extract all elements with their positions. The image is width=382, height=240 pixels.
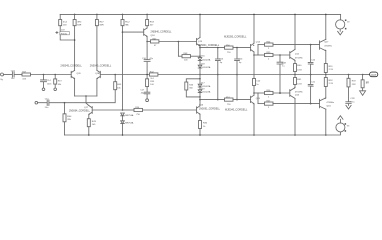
svg-text:C1b: C1b bbox=[239, 59, 244, 61]
capacitor C21 (on output Q11 base column) bbox=[308, 75, 313, 104]
wire Q19 emitter down bbox=[199, 46, 201, 58]
wire top supply rail bbox=[60, 13, 340, 15]
resistor R60 (load to ground) bbox=[362, 75, 364, 80]
wire input bbox=[4, 74, 13, 76]
resistor R41 (Q13 emitter) bbox=[294, 75, 296, 78]
diode D20 (MR754A upper) bbox=[121, 113, 125, 116]
resistor R19 (input shunt to ground) bbox=[54, 75, 56, 79]
svg-text:1u: 1u bbox=[282, 65, 285, 67]
voltage source V- bbox=[336, 123, 345, 132]
diode D16 bbox=[198, 58, 202, 61]
diode D19 bbox=[198, 90, 202, 93]
svg-text:R39: R39 bbox=[150, 81, 155, 83]
resistor R40 (Q12 emitter) bbox=[294, 60, 296, 63]
svg-text:3C4: 3C4 bbox=[63, 21, 68, 23]
svg-text:HU03u: HU03u bbox=[61, 33, 67, 35]
capacitor C14 (input shunt to ground) bbox=[41, 75, 47, 88]
svg-text:1k5: 1k5 bbox=[92, 124, 96, 126]
svg-text:1.5u: 1.5u bbox=[350, 101, 355, 103]
svg-text:2.19: 2.19 bbox=[329, 69, 334, 71]
svg-text:D16: D16 bbox=[201, 56, 206, 58]
svg-text:C10: C10 bbox=[256, 81, 261, 83]
wire col4 bias column down to diode stack bbox=[122, 26, 124, 110]
capacitor C12 (bias spreader bypass) bbox=[277, 55, 283, 93]
svg-text:OUT: OUT bbox=[371, 73, 377, 77]
svg-text:R52: R52 bbox=[329, 80, 334, 82]
svg-text:Q19: Q19 bbox=[198, 41, 203, 43]
svg-text:750: 750 bbox=[136, 114, 140, 116]
svg-text:2R2: 2R2 bbox=[352, 84, 357, 86]
svg-text:2.19: 2.19 bbox=[329, 83, 334, 85]
svg-text:2: 2 bbox=[268, 107, 270, 109]
svg-text:Q13: Q13 bbox=[295, 95, 300, 97]
svg-text:R19: R19 bbox=[58, 81, 63, 83]
resistor R59 (Zobel resistor) bbox=[348, 75, 350, 79]
svg-text:MJE350_CORDELL: MJE350_CORDELL bbox=[224, 35, 247, 38]
wire Q15 emitter down to rail bbox=[253, 104, 255, 135]
wire Q17 base to bias column bbox=[92, 109, 122, 111]
wire Q13 collector to bottom rail bbox=[294, 98, 296, 135]
svg-text:1u: 1u bbox=[311, 64, 314, 66]
transistor Q19 bbox=[196, 38, 198, 44]
transistor Q13 (driver bottom) bbox=[289, 90, 291, 97]
svg-text:KD02ZA: KD02ZA bbox=[202, 58, 210, 61]
resistor R52 (Q11 emitter) bbox=[325, 75, 327, 78]
svg-text:750: 750 bbox=[227, 52, 231, 54]
node junction col4 / Q18 base bbox=[122, 31, 124, 33]
capacitor C17 (40p to ground) bbox=[144, 92, 150, 99]
resistor R17 (input series) bbox=[22, 73, 31, 76]
resistor R36 (Q16 emitter) bbox=[199, 114, 201, 120]
svg-text:560: 560 bbox=[189, 88, 193, 90]
svg-text:2: 2 bbox=[268, 48, 270, 50]
wire Q19 collector to rail bbox=[199, 14, 201, 37]
svg-text:Q14: Q14 bbox=[256, 42, 261, 44]
svg-text:MJE340_CORDELL: MJE340_CORDELL bbox=[225, 109, 248, 112]
svg-text:2N5091_CORDELL: 2N5091_CORDELL bbox=[199, 107, 221, 110]
resistor R34 (on bias wire to Q16) bbox=[123, 109, 135, 111]
svg-text:Q1U: Q1U bbox=[326, 106, 331, 108]
svg-text:R53: R53 bbox=[150, 21, 155, 23]
svg-text:Q15: Q15 bbox=[256, 98, 261, 100]
ground terminal circle for C17 bbox=[146, 99, 149, 102]
wire from junction down to R48 bbox=[177, 42, 179, 57]
svg-text:43k: 43k bbox=[58, 84, 62, 86]
ground terminal circle for C15 bbox=[35, 101, 38, 104]
svg-text:C14: C14 bbox=[47, 80, 52, 82]
wire diff pair emitter bar bbox=[75, 95, 97, 97]
svg-text:Q17: Q17 bbox=[324, 42, 329, 44]
polarity marks V+ bbox=[345, 20, 347, 22]
svg-text:C13: C13 bbox=[219, 59, 224, 61]
wire Q15 collector up bbox=[253, 93, 255, 95]
wire Q18 emitter down to C16 column bbox=[146, 36, 148, 41]
svg-text:R43: R43 bbox=[92, 121, 97, 123]
wire feedback input line bbox=[100, 74, 149, 76]
ground arrow (V-) bbox=[338, 116, 343, 120]
svg-text:104: 104 bbox=[184, 60, 188, 62]
svg-text:V2: V2 bbox=[347, 21, 350, 23]
svg-text:47: 47 bbox=[154, 45, 157, 47]
svg-text:50u: 50u bbox=[45, 107, 49, 109]
svg-text:R51: R51 bbox=[329, 66, 334, 68]
svg-text:D19: D19 bbox=[201, 88, 206, 90]
capacitor C18 (input coupling) bbox=[12, 72, 14, 77]
wire Q11 collector to bottom rail bbox=[325, 109, 327, 135]
svg-text:Q18: Q18 bbox=[151, 35, 156, 37]
node junction R47/Q19 base wire bbox=[178, 41, 180, 43]
wire compensation right column lower bbox=[236, 75, 238, 100]
svg-text:R45: R45 bbox=[117, 84, 122, 86]
svg-text:39k: 39k bbox=[67, 119, 71, 121]
wire Q12 collector to rail bbox=[294, 14, 296, 49]
resistor R27 (rail resistor col4) bbox=[122, 14, 124, 16]
capacitor C20 (on output Q10 base column) bbox=[308, 45, 313, 75]
svg-text:4p: 4p bbox=[239, 62, 242, 64]
input port terminal bbox=[1, 73, 4, 76]
resistor R43 (Q17 emitter degeneration) bbox=[88, 114, 90, 118]
svg-text:10k: 10k bbox=[117, 87, 121, 89]
resistor R57 (VAS node to output bottom base) bbox=[258, 103, 265, 105]
capacitor C16 (47p on column below Q18 emitter) bbox=[144, 42, 150, 75]
svg-text:R41: R41 bbox=[297, 79, 302, 81]
capacitor C26 (Zobel cap) bbox=[346, 87, 351, 106]
transistor Q15 (VAS bottom, MJE340) bbox=[250, 96, 252, 102]
resistor R48 (between junction column and Q19 emitter node) bbox=[178, 55, 182, 57]
svg-text:R46: R46 bbox=[189, 84, 194, 86]
svg-text:0.33: 0.33 bbox=[297, 70, 302, 72]
svg-text:100n: 100n bbox=[47, 83, 52, 85]
svg-text:10K: 10K bbox=[22, 79, 26, 81]
svg-text:2N5045_CORDELL: 2N5045_CORDELL bbox=[90, 64, 112, 67]
ground arrow (V+) bbox=[338, 31, 343, 35]
svg-text:V3: V3 bbox=[347, 126, 350, 128]
svg-text:84R: 84R bbox=[77, 24, 81, 26]
svg-text:4k7: 4k7 bbox=[150, 24, 154, 26]
resistor R50 (on VAS top base wire) bbox=[200, 47, 225, 49]
svg-text:2N5045_CORDELL: 2N5045_CORDELL bbox=[60, 64, 82, 67]
svg-text:MR754A: MR754A bbox=[125, 114, 134, 117]
svg-text:Q17: Q17 bbox=[84, 107, 89, 109]
svg-text:4T03Hx: 4T03Hx bbox=[326, 102, 335, 104]
svg-text:MR754A: MR754A bbox=[125, 122, 134, 125]
wire output line bbox=[158, 74, 363, 76]
capacitor C10 (box style, on VAS column) bbox=[253, 52, 255, 79]
svg-text:R59: R59 bbox=[352, 81, 357, 83]
svg-text:1k8: 1k8 bbox=[63, 24, 67, 26]
wire bottom supply rail bbox=[65, 132, 341, 135]
capacitor C19 (electrolytic below R23) bbox=[60, 32, 70, 35]
port OUT bbox=[363, 74, 370, 76]
svg-text:4T03Hx: 4T03Hx bbox=[295, 57, 304, 59]
wire compensation left column lower bbox=[217, 75, 219, 100]
svg-text:2N5641_CORDELL: 2N5641_CORDELL bbox=[198, 44, 220, 47]
node junction at C19/col2 bbox=[74, 39, 76, 41]
svg-text:Q1A: Q1A bbox=[95, 72, 100, 75]
svg-text:C1R: C1R bbox=[350, 98, 355, 100]
resistor R39 (series in C17 leg) bbox=[146, 75, 148, 79]
svg-text:Vg: Vg bbox=[0, 79, 3, 81]
transistor Q10 (output top) bbox=[319, 41, 321, 50]
node junction feedback shunt / R44 bbox=[64, 102, 66, 104]
svg-text:1k: 1k bbox=[203, 126, 206, 128]
resistor R25 (rail resistor col3) bbox=[96, 14, 98, 16]
svg-text:4p: 4p bbox=[220, 62, 223, 64]
resistor R54 (VAS node to output top base) bbox=[257, 45, 259, 55]
svg-text:C17: C17 bbox=[140, 89, 145, 91]
transistor Q21 (diff pair right) bbox=[99, 71, 101, 77]
resistor R47 (Q18 emitter to Q19 base) bbox=[147, 41, 150, 43]
svg-text:C18: C18 bbox=[11, 70, 16, 72]
resistor R45 (feedback divider upper) bbox=[114, 75, 116, 82]
ground arrow (Zobel) bbox=[346, 105, 351, 109]
resistor R51 (Q10 emitter) bbox=[325, 51, 327, 64]
diode D18 bbox=[198, 65, 202, 68]
svg-text:3H4: 3H4 bbox=[77, 21, 82, 23]
svg-text:Q12: Q12 bbox=[295, 54, 300, 56]
resistor R23 (top-left rail resistor) bbox=[59, 14, 61, 19]
diode D17 bbox=[199, 75, 201, 85]
capacitor C15 (feedback shunt electrolytic) bbox=[38, 100, 65, 105]
transistor Q17 (tail current source) bbox=[91, 107, 93, 114]
wire diff emitters to Q17 collector bbox=[86, 96, 89, 106]
resistor R42 (on feedback line) bbox=[149, 73, 158, 76]
wire Q10 collector to rail bbox=[325, 14, 327, 39]
svg-text:10u: 10u bbox=[11, 78, 15, 80]
svg-text:750: 750 bbox=[227, 104, 231, 106]
ground triangle (load) bbox=[360, 91, 366, 96]
wire Q14 emitter to rail bbox=[253, 14, 255, 43]
svg-text:D18: D18 bbox=[201, 64, 206, 66]
transistor Q20 (diff pair left) bbox=[70, 71, 72, 77]
capacitor C15b (compensation right column) bbox=[236, 47, 238, 49]
resistor R46 (parallel branch left of diode stack) bbox=[186, 79, 200, 82]
capacitor C13 (compensation left column) bbox=[217, 47, 219, 49]
transistor Q11 (output bottom) bbox=[319, 99, 321, 108]
svg-text:KD02ZA: KD02ZA bbox=[202, 66, 210, 69]
svg-text:0.33: 0.33 bbox=[297, 84, 302, 86]
svg-text:47p: 47p bbox=[149, 58, 153, 60]
svg-text:R36: R36 bbox=[203, 123, 208, 125]
svg-text:R44: R44 bbox=[67, 116, 72, 118]
svg-text:R40: R40 bbox=[297, 65, 302, 67]
svg-text:1u: 1u bbox=[311, 86, 314, 88]
svg-text:R47: R47 bbox=[100, 21, 105, 23]
svg-text:KD02ZA: KD02ZA bbox=[202, 91, 210, 94]
polarity marks V- bbox=[345, 123, 347, 125]
svg-text:D17: D17 bbox=[201, 83, 206, 85]
svg-text:2: 2 bbox=[268, 96, 270, 98]
resistor R56 (VAS node to Q13 base) bbox=[257, 93, 259, 104]
svg-text:RC2: RC2 bbox=[125, 21, 130, 23]
svg-text:4T03Hx: 4T03Hx bbox=[295, 91, 304, 93]
resistor R44 (shunt node to bottom rail) bbox=[64, 103, 66, 114]
wire VAS output column bbox=[253, 54, 255, 56]
transistor Q12 (driver top) bbox=[289, 52, 291, 59]
transistor Q14 (VAS top, MJE350) bbox=[250, 44, 252, 50]
resistor R55 (VAS node to Q12 base) bbox=[254, 54, 265, 56]
svg-text:98k: 98k bbox=[125, 24, 129, 26]
resistor R53 (rail resistor above Q18) bbox=[146, 14, 148, 16]
transistor Q16 (VAS current source) bbox=[196, 107, 198, 113]
voltage source V+ bbox=[340, 14, 342, 19]
wire input to diff pair bbox=[31, 74, 72, 76]
svg-text:4T03Hx: 4T03Hx bbox=[324, 45, 333, 47]
svg-text:2N5640_CORDELL: 2N5640_CORDELL bbox=[151, 30, 173, 33]
svg-text:C21: C21 bbox=[311, 81, 316, 83]
svg-text:2N5064_CORDELL: 2N5064_CORDELL bbox=[69, 110, 91, 113]
svg-text:2: 2 bbox=[268, 58, 270, 60]
wire bottom VAS base bbox=[200, 99, 225, 101]
transistor Q18 bbox=[123, 31, 144, 33]
svg-text:C18: C18 bbox=[282, 62, 287, 64]
svg-text:8R: 8R bbox=[366, 81, 369, 84]
svg-text:84R: 84R bbox=[100, 24, 104, 26]
svg-text:C20: C20 bbox=[311, 59, 316, 61]
diode D21 (MR754A lower) bbox=[121, 121, 125, 124]
svg-text:Q20: Q20 bbox=[77, 73, 82, 75]
svg-text:1u: 1u bbox=[256, 84, 259, 86]
svg-text:100: 100 bbox=[150, 84, 154, 86]
svg-text:Q16: Q16 bbox=[199, 104, 204, 106]
resistor R24 (rail resistor col2) bbox=[74, 14, 76, 16]
